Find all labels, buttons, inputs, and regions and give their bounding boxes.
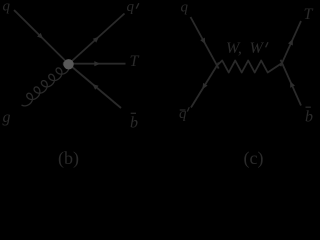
- svg-text:q: q: [3, 0, 11, 15]
- svg-text:T: T: [130, 53, 140, 70]
- svg-text:b: b: [305, 109, 313, 126]
- svg-text:q: q: [127, 0, 135, 15]
- svg-text:g: g: [3, 109, 11, 126]
- svg-text:W,: W,: [226, 40, 242, 57]
- svg-text:q: q: [181, 0, 189, 16]
- svg-text:q: q: [179, 106, 187, 122]
- svg-text:b: b: [130, 115, 138, 132]
- svg-text:(b): (b): [58, 148, 79, 169]
- svg-text:W: W: [250, 40, 265, 57]
- svg-text:T: T: [304, 6, 314, 23]
- svg-text:(c): (c): [244, 148, 264, 169]
